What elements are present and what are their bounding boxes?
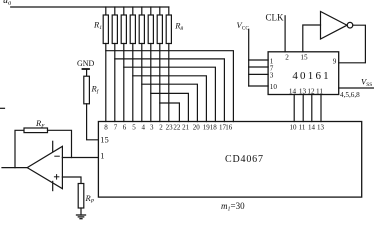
wire branch R4 to pin 19 xyxy=(133,76,207,122)
svg-text:3: 3 xyxy=(150,124,154,132)
svg-text:ua: ua xyxy=(3,0,11,7)
wire column R4 to pin 5 xyxy=(132,44,134,122)
svg-text:3: 3 xyxy=(270,72,274,80)
resistor R5 xyxy=(139,7,144,44)
wire branch R5 to pin 20 xyxy=(142,84,198,121)
svg-text:7: 7 xyxy=(114,124,118,132)
wire branch R1 to pin 16 xyxy=(106,51,234,122)
wire branch R6 to pin 21 xyxy=(151,93,189,121)
svg-text:m1=30: m1=30 xyxy=(221,201,245,213)
wire column R7 to pin 2 xyxy=(159,44,161,122)
wire inverting input to CD4067 pin 1 xyxy=(62,157,98,159)
wire 40161 pin 14 to CD4067 pin 10 xyxy=(293,95,295,122)
svg-text:5: 5 xyxy=(132,124,136,132)
svg-text:C D 4 0 6 7: C D 4 0 6 7 xyxy=(225,154,263,165)
svg-text:2: 2 xyxy=(159,124,163,132)
wire Vcc to pin 10 xyxy=(249,85,268,87)
svg-text:11: 11 xyxy=(316,87,323,95)
svg-text:6: 6 xyxy=(123,124,127,132)
wire pin 15 to inverter input xyxy=(303,25,321,52)
wire column R8 to pin 23 xyxy=(168,44,170,122)
wire feedback left vertical xyxy=(15,130,24,167)
wire feedback right to inverting input xyxy=(48,130,72,157)
resistor R1 xyxy=(93,7,108,44)
svg-text:13: 13 xyxy=(317,124,325,132)
resistor R8 xyxy=(166,7,183,44)
svg-text:15: 15 xyxy=(300,54,308,62)
resistor R6 xyxy=(148,7,153,44)
resistor R3 xyxy=(121,7,126,44)
wire column R5 to pin 4 xyxy=(141,44,143,122)
svg-text:11: 11 xyxy=(299,124,306,132)
wire CLK to pin 2 xyxy=(284,16,286,52)
wire noninverting input xyxy=(62,177,81,184)
ground (below RP) xyxy=(77,215,86,219)
page tick at left edge xyxy=(0,107,5,109)
resistor RP xyxy=(78,184,95,209)
svg-text:14: 14 xyxy=(308,124,316,132)
svg-text:4,5,6,8: 4,5,6,8 xyxy=(340,91,360,99)
svg-text:4 0 1 6 1: 4 0 1 6 1 xyxy=(292,70,328,82)
op-amp U1 xyxy=(27,141,62,190)
svg-text:15: 15 xyxy=(100,134,109,144)
inverter U2 xyxy=(321,12,353,40)
wire column R6 to pin 3 xyxy=(150,44,152,122)
wire branch R3 to pin 18 xyxy=(124,67,216,121)
resistor RF (feedback) xyxy=(24,118,48,133)
svg-text:23: 23 xyxy=(166,124,174,132)
wire 40161 pin 11 to CD4067 pin 13 xyxy=(320,95,322,122)
wire column R2 to pin 7 xyxy=(114,44,116,122)
svg-text:4: 4 xyxy=(141,124,145,132)
wire Vss (pins 4,5,6,8) xyxy=(339,87,374,89)
wire inverter output to pin 9 xyxy=(339,25,366,63)
svg-text:16: 16 xyxy=(225,124,233,132)
wire Vcc to pin 1 xyxy=(249,59,268,61)
svg-text:9: 9 xyxy=(333,57,337,65)
wire column R1 to pin 8 xyxy=(105,44,107,122)
wire branch R2 to pin 17 xyxy=(115,59,225,122)
wire branch R7 to pin 22 xyxy=(160,103,180,122)
wire top input bus xyxy=(11,6,169,8)
IC 40161 xyxy=(268,52,339,96)
wire RP to ground xyxy=(80,208,82,215)
wire Vcc to pin 3 xyxy=(249,73,268,75)
ground GND terminal xyxy=(77,59,95,76)
svg-text:1: 1 xyxy=(100,151,104,161)
wire Vcc bus xyxy=(248,29,250,86)
resistor R7 xyxy=(157,7,162,44)
svg-text:10: 10 xyxy=(290,124,298,132)
svg-text:8: 8 xyxy=(104,124,108,132)
svg-text:22: 22 xyxy=(173,124,181,132)
wire Vcc to pin 7 xyxy=(249,66,268,68)
svg-text:18: 18 xyxy=(210,124,218,132)
svg-text:10: 10 xyxy=(270,83,278,91)
resistor R4 xyxy=(130,7,135,44)
IC CD4067 xyxy=(98,122,361,198)
svg-text:20: 20 xyxy=(193,124,201,132)
svg-text:21: 21 xyxy=(182,124,190,132)
resistor Rf (GND to pin 15) xyxy=(84,76,100,104)
wire Rf to pin 15 xyxy=(87,104,99,140)
svg-text:CLK: CLK xyxy=(266,13,285,23)
wire op-amp output xyxy=(2,167,27,169)
wire 40161 pin 12 to CD4067 pin 14 xyxy=(311,95,313,122)
svg-text:14: 14 xyxy=(289,87,297,95)
wire 40161 pin 13 to CD4067 pin 11 xyxy=(302,95,304,122)
svg-text:2: 2 xyxy=(285,54,289,62)
resistor R2 xyxy=(112,7,117,44)
wire column R3 to pin 6 xyxy=(123,44,125,122)
svg-text:GND: GND xyxy=(77,59,95,68)
